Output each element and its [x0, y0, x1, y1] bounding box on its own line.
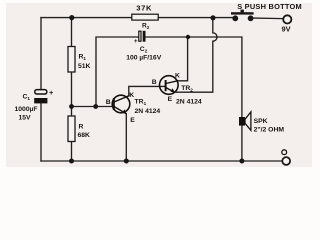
- svg-text:68K: 68K: [78, 132, 91, 139]
- svg-text:E: E: [130, 117, 135, 124]
- capacitor C2: [126, 31, 162, 62]
- terminal 9V positive: [282, 15, 292, 33]
- svg-text:2N 4124: 2N 4124: [135, 108, 161, 115]
- node: top rail R1 junction: [69, 15, 74, 20]
- svg-text:E: E: [168, 96, 173, 103]
- svg-text:B: B: [106, 99, 111, 106]
- wire: TR1 emitter down to bottom rail: [125, 114, 127, 161]
- svg-text:SPK: SPK: [254, 118, 268, 125]
- wire: C2 left branch vertical: [96, 37, 138, 107]
- node: base wire R1 junction: [69, 104, 74, 109]
- svg-text:+: +: [49, 88, 54, 97]
- svg-text:S PUSH BOTTOM: S PUSH BOTTOM: [237, 2, 302, 11]
- svg-text:37K: 37K: [136, 4, 152, 13]
- resistor R 68K: [68, 116, 90, 142]
- transistor TR2: [152, 72, 202, 105]
- wire: R1 to base node: [71, 72, 73, 116]
- paper background: [0, 0, 320, 170]
- node: top rail 37K junction: [210, 15, 215, 20]
- resistor R1 51K: [68, 47, 91, 73]
- speaker SPK: [239, 112, 284, 134]
- svg-text:51K: 51K: [78, 63, 91, 70]
- wire: top rail middle segment: [158, 17, 233, 19]
- node: C2 wire / TR2 collector junction: [186, 35, 190, 39]
- node: bottom rail speaker junction: [239, 159, 244, 164]
- svg-text:9V: 9V: [282, 25, 291, 34]
- wire: left rail lower (C1 to bottom): [40, 103, 42, 161]
- wire: top rail right segment to 9V: [252, 17, 283, 20]
- terminal bottom negative: [282, 150, 290, 165]
- node: base wire C2 branch junction: [93, 104, 98, 109]
- wire: R1 top lead: [71, 18, 73, 47]
- wire: C2 right to speaker corner: [145, 37, 242, 117]
- wire: TR1 collector to TR2 base: [129, 86, 166, 95]
- wire: 37K node down to TR2 emitter (with hop): [176, 18, 217, 93]
- capacitor C1: [15, 88, 55, 122]
- svg-text:2N 4124: 2N 4124: [176, 98, 202, 105]
- wire: base wire to TR1: [72, 106, 114, 108]
- svg-text:+: +: [134, 39, 138, 45]
- svg-text:100 µF/16V: 100 µF/16V: [126, 54, 162, 61]
- wire: top rail left segment: [41, 17, 132, 19]
- svg-text:B: B: [152, 79, 157, 86]
- transistor TR1: [106, 92, 161, 124]
- svg-text:R: R: [79, 123, 84, 130]
- svg-text:15V: 15V: [19, 115, 32, 122]
- wire: bottom rail: [41, 160, 282, 162]
- node: bottom rail 68K junction: [69, 159, 74, 164]
- wire: R 68K bottom lead: [71, 142, 73, 162]
- node: bottom rail TR1 emitter junction: [124, 159, 129, 164]
- resistor R2 37K: [132, 4, 158, 30]
- svg-text:1000µF: 1000µF: [15, 106, 38, 113]
- svg-text:K: K: [175, 72, 180, 79]
- svg-text:2"/2 OHM: 2"/2 OHM: [254, 127, 285, 134]
- wire: TR2 collector branch from C2 wire: [178, 37, 188, 81]
- wire: speaker to bottom rail: [241, 126, 243, 162]
- wire: left rail upper (to C1): [40, 18, 42, 90]
- push button S: [231, 2, 302, 21]
